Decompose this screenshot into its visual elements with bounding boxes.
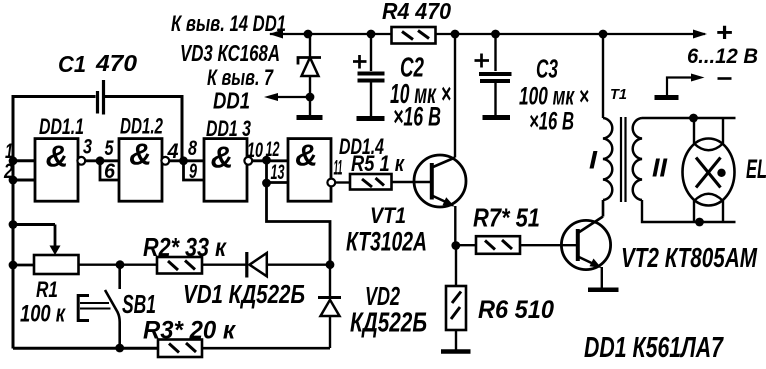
svg-text:DD1 3: DD1 3 [206, 116, 251, 141]
svg-text:100 к: 100 к [20, 301, 66, 328]
svg-text:3: 3 [83, 136, 92, 159]
svg-text:VD3 КС168А: VD3 КС168А [180, 40, 280, 66]
svg-text:6: 6 [104, 160, 115, 183]
svg-text:&: & [295, 138, 317, 173]
svg-text:13: 13 [271, 161, 285, 184]
svg-text:&: & [129, 137, 151, 172]
svg-text:12: 12 [266, 138, 280, 161]
svg-text:11: 11 [334, 157, 343, 180]
svg-text:×16 В: ×16 В [529, 108, 574, 136]
svg-text:470: 470 [95, 50, 137, 76]
svg-text:КТ3102А: КТ3102А [346, 227, 427, 257]
svg-text:EL: EL [746, 154, 766, 184]
svg-text:R1: R1 [36, 277, 58, 302]
svg-text:8: 8 [188, 137, 197, 160]
svg-text:×16 В: ×16 В [393, 102, 441, 132]
svg-text:DD1: DD1 [213, 88, 250, 114]
svg-text:R2* 33 к: R2* 33 к [143, 232, 228, 262]
svg-text:VT1: VT1 [370, 203, 406, 228]
svg-text:К выв. 14 DD1: К выв. 14 DD1 [171, 11, 286, 36]
svg-text:К выв. 7: К выв. 7 [207, 65, 274, 90]
svg-text:+: + [716, 17, 733, 47]
svg-text:R7* 51: R7* 51 [473, 203, 540, 233]
svg-text:9: 9 [189, 160, 197, 183]
svg-text:4: 4 [167, 140, 179, 163]
svg-text:Т1: Т1 [610, 86, 627, 103]
svg-text:&: & [46, 139, 68, 174]
svg-text:SB1: SB1 [122, 289, 156, 319]
svg-text:VD1 КД522Б: VD1 КД522Б [183, 279, 305, 309]
svg-text:DD1.2: DD1.2 [120, 114, 164, 139]
svg-text:КД522Б: КД522Б [350, 307, 427, 338]
svg-text:10: 10 [247, 139, 263, 162]
svg-text:DD1 К561ЛА7: DD1 К561ЛА7 [584, 332, 724, 364]
svg-text:С3: С3 [536, 54, 558, 84]
svg-text:6...12 В: 6...12 В [687, 45, 758, 68]
svg-text:5: 5 [105, 137, 114, 160]
svg-text:DD1.1: DD1.1 [39, 114, 84, 139]
svg-text:2: 2 [3, 160, 13, 183]
svg-text:II: II [652, 153, 668, 183]
svg-text:100 мк ×: 100 мк × [519, 83, 589, 111]
svg-text:VT2 КТ805АМ: VT2 КТ805АМ [621, 242, 757, 273]
svg-text:I: I [589, 147, 598, 175]
svg-text:R3* 20 к: R3* 20 к [143, 317, 236, 345]
svg-text:С1: С1 [58, 51, 86, 77]
svg-text:R4 470: R4 470 [382, 0, 451, 24]
svg-text:R6 510: R6 510 [478, 296, 554, 324]
svg-text:R5 1 к: R5 1 к [351, 151, 406, 176]
svg-text:&: & [211, 140, 233, 175]
